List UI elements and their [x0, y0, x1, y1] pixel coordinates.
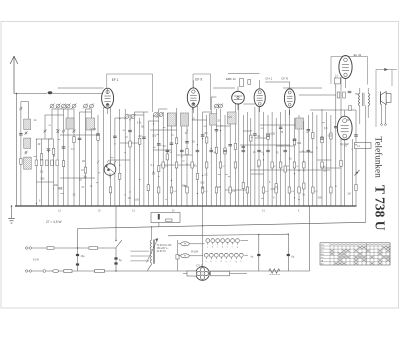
- svg-text:16µ: 16µ: [81, 255, 86, 258]
- svg-text:300: 300: [152, 135, 157, 138]
- svg-text:2M: 2M: [138, 136, 141, 138]
- svg-text:150-220 V~: 150-220 V~: [157, 248, 170, 250]
- svg-text:Mw: Mw: [321, 254, 325, 256]
- svg-text:0,05: 0,05: [270, 132, 275, 135]
- svg-text:1M: 1M: [218, 187, 221, 189]
- svg-text:0,5: 0,5: [228, 116, 232, 119]
- svg-text:0,5: 0,5: [324, 127, 328, 130]
- svg-text:300: 300: [318, 196, 323, 199]
- svg-text:1M: 1M: [82, 161, 85, 163]
- svg-text:40-60 Hz: 40-60 Hz: [157, 251, 167, 253]
- svg-text:Ger.: Ger.: [321, 244, 325, 246]
- svg-text:27 = 4,5 W: 27 = 4,5 W: [46, 220, 62, 224]
- svg-text:0,5M: 0,5M: [90, 128, 96, 131]
- svg-text:Ukw: Ukw: [321, 248, 325, 250]
- svg-text:300: 300: [200, 182, 205, 185]
- svg-text:T 738 U: T 738 U: [373, 185, 388, 231]
- svg-text:2M: 2M: [204, 133, 207, 135]
- svg-text:99 ΩW: 99 ΩW: [191, 251, 199, 253]
- svg-text:Ntz: Ntz: [321, 262, 324, 265]
- svg-text:CF 8: CF 8: [281, 76, 288, 80]
- svg-text:1M: 1M: [128, 198, 131, 200]
- svg-text:0,25: 0,25: [271, 189, 276, 191]
- svg-text:2M: 2M: [347, 194, 350, 196]
- svg-text:EL 41: EL 41: [354, 53, 362, 57]
- svg-text:70-90-110-125: 70-90-110-125: [157, 245, 173, 247]
- svg-text:Telefunken: Telefunken: [374, 137, 384, 179]
- svg-text:0,1: 0,1: [151, 164, 155, 167]
- svg-text:EBF 11: EBF 11: [226, 77, 236, 81]
- svg-text:CH 1: CH 1: [265, 76, 272, 80]
- svg-text:0,5: 0,5: [152, 172, 156, 175]
- svg-text:EF 9: EF 9: [195, 78, 202, 82]
- svg-text:EF 1: EF 1: [112, 78, 119, 82]
- svg-text:c: c: [217, 246, 218, 248]
- svg-text:c: c: [216, 261, 217, 263]
- svg-text:0,05: 0,05: [137, 123, 142, 125]
- svg-text:0,05: 0,05: [328, 134, 333, 137]
- svg-text:41 W: 41 W: [33, 259, 39, 262]
- svg-text:0,2: 0,2: [204, 173, 208, 176]
- svg-text:0,05: 0,05: [134, 198, 139, 201]
